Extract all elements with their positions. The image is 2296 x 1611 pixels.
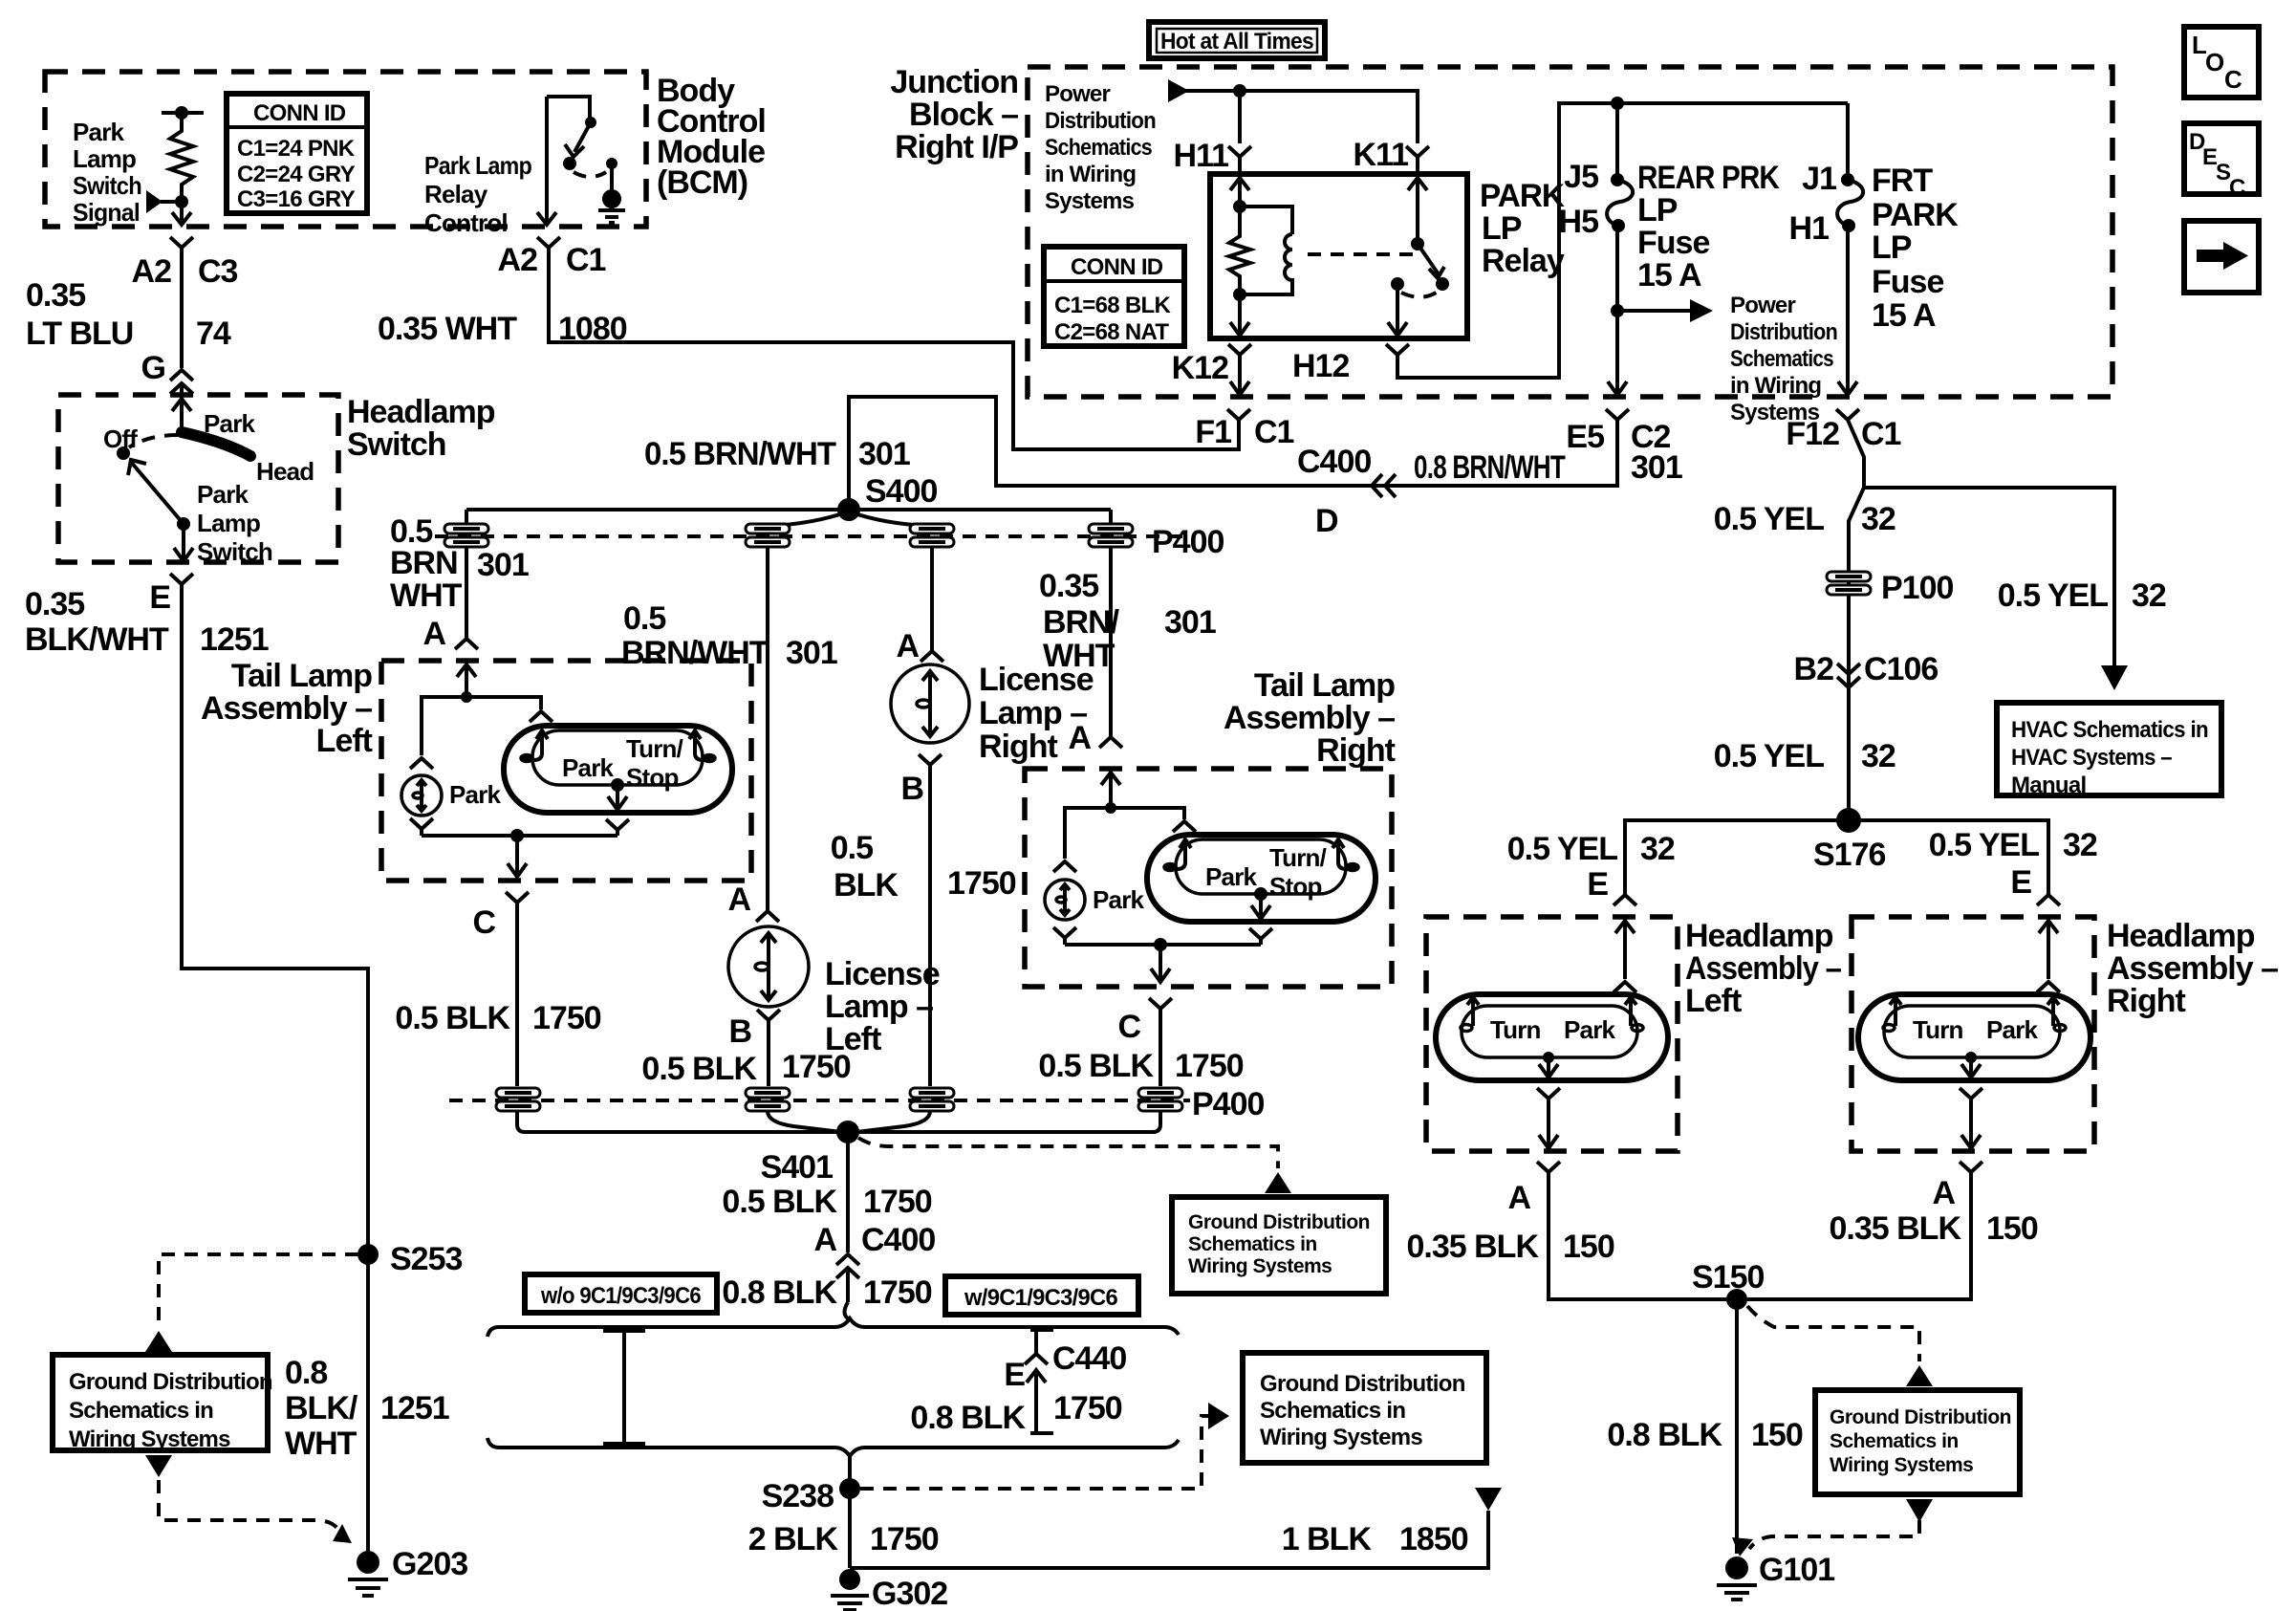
- signal arrow to left: [161, 200, 182, 204]
- svg-text:0.35: 0.35: [1039, 568, 1098, 604]
- svg-text:LT BLU: LT BLU: [26, 316, 133, 352]
- K12 chevron below relay: [1228, 344, 1251, 369]
- chevron A license left: [756, 911, 779, 922]
- svg-text:0.5: 0.5: [623, 600, 665, 637]
- wire oval exit with arrow (right): [1259, 894, 1263, 918]
- svg-text:Schematics in: Schematics in: [1830, 1430, 1959, 1452]
- grommet P400 (tail right return): [1138, 1088, 1182, 1111]
- node in tail right: [1105, 802, 1116, 814]
- svg-text:C: C: [2229, 175, 2245, 201]
- splice S401: [836, 1121, 859, 1143]
- svg-text:Lamp: Lamp: [197, 509, 260, 537]
- wire bus left end down: [465, 510, 468, 524]
- svg-text:in Wiring: in Wiring: [1730, 373, 1821, 399]
- svg-text:S401: S401: [761, 1149, 833, 1186]
- chevron turn/stop top (right): [1173, 821, 1196, 832]
- entry arrow into tail right: [1109, 769, 1113, 808]
- chevron B license right: [919, 754, 942, 776]
- wire to turn/stop branch (right): [1111, 808, 1184, 819]
- w/o path wire with end bars: [603, 1331, 645, 1444]
- K11 chevron: [1406, 146, 1429, 172]
- wire 1 BLK 1850 to G302: [850, 1511, 1488, 1568]
- junction dot: [175, 195, 188, 208]
- grommet (license left return): [746, 1088, 790, 1111]
- svg-text:32: 32: [1640, 831, 1675, 867]
- svg-text:WHT: WHT: [390, 577, 463, 614]
- svg-text:C1=24 PNK: C1=24 PNK: [237, 136, 356, 162]
- wire license-left return into S401: [768, 1111, 841, 1132]
- svg-text:Right I/P: Right I/P: [895, 129, 1018, 165]
- svg-text:Wiring Systems: Wiring Systems: [1830, 1454, 1973, 1476]
- svg-text:A2: A2: [498, 242, 538, 278]
- svg-text:0.5 YEL: 0.5 YEL: [1714, 501, 1824, 537]
- svg-text:Park: Park: [449, 780, 502, 809]
- node fuse feed REAR: [1611, 97, 1624, 110]
- relay coil branch entry arrow: [1238, 174, 1242, 206]
- svg-text:0.5 YEL: 0.5 YEL: [1507, 831, 1617, 867]
- H11 chevron: [1228, 146, 1251, 172]
- svg-text:0.35 BLK: 0.35 BLK: [1830, 1210, 1962, 1247]
- svg-text:S253: S253: [390, 1241, 462, 1277]
- connector G double chevron: [170, 370, 193, 402]
- svg-text:0.5 BLK: 0.5 BLK: [1038, 1048, 1154, 1084]
- off contact dot: [117, 446, 130, 460]
- FRT PARK LP fuse: [1837, 103, 1863, 395]
- svg-text:150: 150: [1986, 1210, 2038, 1247]
- wire 0.5 BLK 1750 (license right): [928, 776, 932, 1086]
- svg-text:0.35 BLK: 0.35 BLK: [1407, 1229, 1540, 1265]
- svg-text:0.5 YEL: 0.5 YEL: [1929, 827, 2039, 863]
- dashed branch S253 to ground distribution box: [159, 1254, 358, 1327]
- grommet connector (license left feed): [746, 524, 790, 547]
- svg-text:CONN ID: CONN ID: [1071, 254, 1163, 280]
- svg-text:Headlamp: Headlamp: [347, 394, 495, 430]
- label Power Distribution Schematics in Wiring Systems (JB left): [1045, 81, 1156, 214]
- wire to turn/stop branch: [466, 697, 541, 709]
- exit arrow from oval (right): [1969, 1057, 1973, 1077]
- dashed harness line P400 top row: [435, 534, 1190, 538]
- svg-text:C440: C440: [1052, 1340, 1126, 1377]
- grommet (license right return): [910, 1088, 954, 1111]
- box HVAC Schematics in HVAC Systems - Manual: [1997, 703, 2221, 798]
- svg-text:Wiring Systems: Wiring Systems: [1260, 1425, 1422, 1450]
- svg-text:D: D: [1315, 503, 1338, 539]
- wire tail-left return into bus: [517, 1111, 525, 1132]
- svg-text:Headlamp: Headlamp: [1685, 918, 1833, 954]
- S400 bus wire: [466, 508, 1111, 512]
- svg-text:Turn: Turn: [1913, 1015, 1963, 1044]
- splice S150: [1726, 1289, 1747, 1310]
- splice S176: [1836, 808, 1861, 833]
- svg-text:1750: 1750: [947, 865, 1016, 902]
- svg-text:15 A: 15 A: [1872, 297, 1936, 334]
- switch armature with arrow toward Off: [130, 461, 184, 524]
- svg-text:B: B: [728, 1013, 751, 1050]
- label License Lamp - Left: [825, 956, 940, 1057]
- svg-text:LP: LP: [1637, 192, 1678, 229]
- label 0.5 BRN/WHT 301 (license left): [621, 600, 837, 671]
- wire to park bulb branch (right): [1065, 808, 1111, 859]
- svg-text:Switch: Switch: [197, 537, 272, 566]
- label Junction Block - Right I/P: [890, 64, 1018, 165]
- svg-text:0.5: 0.5: [831, 830, 873, 866]
- svg-text:Stop: Stop: [1269, 872, 1322, 901]
- H12 chevron below relay: [1386, 344, 1409, 369]
- svg-text:0.5 BLK: 0.5 BLK: [641, 1051, 757, 1087]
- wire tail-right return into bus: [1153, 1111, 1160, 1132]
- svg-text:C2=68 NAT: C2=68 NAT: [1054, 319, 1169, 345]
- svg-text:0.35 WHT: 0.35 WHT: [378, 311, 517, 347]
- connector A2/C3 chevron: [170, 237, 193, 264]
- chevron park bulb bottom (right): [1053, 927, 1076, 945]
- svg-text:H12: H12: [1292, 348, 1349, 384]
- svg-text:1750: 1750: [532, 1000, 601, 1036]
- svg-text:0.8 BRN/WHT: 0.8 BRN/WHT: [1414, 449, 1566, 486]
- tail lamp right dashed box: [1025, 769, 1392, 987]
- svg-text:G: G: [141, 350, 165, 386]
- license lamp left bulb: [728, 926, 809, 1007]
- svg-text:FRT: FRT: [1872, 163, 1933, 199]
- svg-text:Headlamp: Headlamp: [2107, 918, 2255, 954]
- svg-text:Park Lamp: Park Lamp: [424, 151, 531, 180]
- wire down to box edge with arrowhead: [180, 202, 184, 224]
- svg-text:Relay: Relay: [424, 180, 488, 208]
- chevron E headlamp right: [2037, 895, 2060, 905]
- arrow out of box bottom: [145, 1455, 172, 1477]
- BCM dashed box: [45, 72, 646, 227]
- BCM relay control output wire: [545, 97, 549, 224]
- svg-text:PARK: PARK: [1872, 197, 1959, 233]
- svg-text:J5: J5: [1564, 159, 1598, 195]
- svg-text:E: E: [1004, 1357, 1025, 1393]
- arrow out of box bottom (right): [1906, 1499, 1933, 1522]
- chevron E headlamp left: [1614, 895, 1636, 905]
- svg-text:0.8 BLK: 0.8 BLK: [1607, 1417, 1722, 1453]
- svg-text:A: A: [896, 628, 919, 664]
- dashed S238 to ground distribution box: [860, 1416, 1225, 1489]
- park lamp switch output wire: [182, 524, 185, 560]
- license lamp right bulb: [891, 664, 969, 743]
- svg-text:1251: 1251: [380, 1390, 449, 1426]
- svg-text:Lamp –: Lamp –: [825, 989, 933, 1025]
- svg-text:S150: S150: [1692, 1259, 1764, 1295]
- turn filament (headlamp left): [1467, 997, 1479, 1026]
- svg-text:F1: F1: [1195, 414, 1231, 450]
- node on feed at H11: [1233, 84, 1246, 98]
- svg-text:0.5 YEL: 0.5 YEL: [1714, 738, 1824, 774]
- svg-text:Park: Park: [562, 753, 615, 782]
- svg-text:C2=24 GRY: C2=24 GRY: [237, 162, 356, 187]
- svg-text:0.8: 0.8: [285, 1355, 327, 1391]
- node C exit: [510, 829, 524, 842]
- wire C exit with arrow: [515, 836, 519, 876]
- feed arrow into JB: [1168, 79, 1189, 102]
- branch arrow to power distribution (right): [1617, 309, 1690, 313]
- svg-text:G101: G101: [1759, 1552, 1834, 1588]
- svg-text:Ground Distribution: Ground Distribution: [1188, 1211, 1370, 1233]
- grommet P100: [1827, 572, 1871, 595]
- resistor R (park lamp switch signal pull-up): [170, 113, 193, 199]
- svg-text:0.8 BLK: 0.8 BLK: [910, 1400, 1026, 1436]
- svg-text:A: A: [1068, 720, 1091, 756]
- svg-text:Relay: Relay: [1482, 243, 1565, 279]
- svg-text:S176: S176: [1813, 837, 1885, 873]
- wire bus right end down: [1109, 510, 1113, 524]
- entry arrow into tail left: [465, 661, 468, 697]
- svg-text:Distribution: Distribution: [1730, 319, 1837, 345]
- svg-text:1750: 1750: [782, 1049, 851, 1085]
- svg-text:Lamp: Lamp: [73, 144, 136, 173]
- svg-text:0.5 BLK: 0.5 BLK: [722, 1184, 837, 1220]
- arrow box: [2184, 221, 2259, 293]
- svg-text:in Wiring: in Wiring: [1045, 162, 1136, 187]
- svg-text:Wiring Systems: Wiring Systems: [69, 1426, 230, 1452]
- svg-text:2 BLK: 2 BLK: [748, 1521, 839, 1557]
- svg-text:Power: Power: [1730, 293, 1795, 318]
- turn/stop right filament (right assy): [1332, 839, 1347, 869]
- svg-text:1750: 1750: [863, 1184, 932, 1220]
- chevron B license left: [757, 1010, 780, 1033]
- wire bracket to S238: [848, 1456, 852, 1482]
- svg-text:C1: C1: [566, 242, 606, 278]
- wire S401 down: [846, 1132, 850, 1252]
- svg-text:Ground Distribution: Ground Distribution: [1830, 1406, 2011, 1428]
- node in tail left: [461, 691, 472, 703]
- chevron above oval (headlamp left): [1614, 982, 1636, 992]
- ground G101: [1717, 1557, 1757, 1600]
- node dot on resistor top: [175, 106, 188, 120]
- wire license-right return into S401: [856, 1111, 930, 1132]
- chevron C below box: [506, 892, 529, 916]
- chevron A tail right: [1099, 737, 1122, 748]
- svg-text:32: 32: [2132, 577, 2166, 614]
- wire 0.5 BLK 1750 (license left): [767, 1033, 770, 1086]
- svg-text:C: C: [1117, 1009, 1140, 1045]
- wire 0.5 BLK 1750 (tail right): [1159, 1021, 1162, 1086]
- relay coil: [1240, 207, 1292, 234]
- svg-text:C1: C1: [1254, 414, 1294, 450]
- svg-text:HVAC Systems –: HVAC Systems –: [2011, 745, 2172, 771]
- headlamp switch dashed box: [58, 395, 338, 562]
- svg-text:Right: Right: [2107, 983, 2186, 1019]
- svg-text:G203: G203: [392, 1546, 467, 1582]
- headlamp right dashed box: [1852, 917, 2094, 1151]
- label Tail Lamp Assembly - Right: [1224, 667, 1396, 769]
- box Hot at All Times: [1149, 22, 1325, 58]
- connector B2/C106 double chevron: [1837, 664, 1860, 687]
- svg-text:C3: C3: [198, 253, 238, 290]
- park bulb (tail right): [1045, 880, 1085, 920]
- node S253: [357, 1244, 379, 1265]
- svg-text:0.5 BLK: 0.5 BLK: [395, 1000, 510, 1036]
- tail right ground bus: [1065, 943, 1261, 947]
- svg-text:32: 32: [1861, 501, 1895, 537]
- label Park Lamp Relay Control: [424, 151, 531, 237]
- S176 bus right: [1849, 820, 2048, 895]
- wire 0.35 WHT 1080 from BCM C1: [549, 264, 1239, 449]
- turn/stop bulb oval (tail right): [1147, 835, 1375, 922]
- chevron above oval (headlamp right): [2037, 982, 2060, 992]
- svg-text:J1: J1: [1802, 161, 1836, 197]
- grommet connector P400 (tail right feed): [1089, 524, 1133, 547]
- svg-text:A2: A2: [132, 253, 172, 290]
- svg-text:(BCM): (BCM): [657, 164, 747, 201]
- svg-text:Assembly –: Assembly –: [1685, 950, 1841, 987]
- svg-text:P400: P400: [1192, 1086, 1264, 1122]
- label Headlamp Assembly - Right: [2107, 918, 2278, 1019]
- svg-text:K12: K12: [1172, 350, 1228, 386]
- svg-text:Schematics in: Schematics in: [1260, 1398, 1405, 1424]
- F1/C1 connector below JB: [1227, 409, 1250, 436]
- CONN ID table (JB): [1044, 247, 1184, 346]
- svg-text:Park: Park: [1093, 885, 1145, 914]
- svg-text:Park: Park: [197, 480, 249, 509]
- label PARK LP Relay: [1480, 178, 1565, 279]
- svg-text:Schematics: Schematics: [1045, 135, 1152, 161]
- exit arrow from oval: [1547, 1057, 1550, 1077]
- node oval bottom (headlamp right): [1965, 1052, 1977, 1063]
- entry arrow into headlamp left: [1623, 917, 1627, 979]
- rotary wedge Park-to-Head: [182, 432, 250, 456]
- turn/park bulb oval (headlamp left): [1436, 994, 1668, 1080]
- svg-text:S238: S238: [762, 1478, 834, 1514]
- svg-text:G302: G302: [872, 1576, 947, 1611]
- wire hook into bracket: [845, 1302, 849, 1318]
- chevron A tail left: [455, 547, 478, 649]
- wire 0.35 BLK 150 (left): [1549, 1186, 1726, 1299]
- svg-text:Assembly –: Assembly –: [1224, 700, 1395, 736]
- svg-text:Block –: Block –: [909, 97, 1018, 133]
- svg-text:Schematics in: Schematics in: [1188, 1233, 1317, 1255]
- exit arrow to box edge: [1547, 1128, 1550, 1147]
- junction block dashed box: [1028, 67, 2112, 397]
- ground G203: [348, 1551, 388, 1596]
- svg-text:1 BLK: 1 BLK: [1282, 1521, 1373, 1557]
- svg-text:BRN/: BRN/: [1043, 604, 1120, 641]
- svg-text:C106: C106: [1864, 651, 1938, 687]
- turn/stop right filament: [689, 730, 704, 760]
- upper option bracket: [487, 1318, 1179, 1337]
- HVAC branch wire: [1864, 488, 2114, 667]
- label Park Lamp Switch: [197, 480, 272, 566]
- node on oval bottom rail (right): [1254, 887, 1267, 901]
- svg-text:301: 301: [1631, 449, 1682, 486]
- svg-text:301: 301: [858, 436, 910, 472]
- svg-text:BLK/: BLK/: [285, 1390, 358, 1426]
- svg-text:BRN/WHT: BRN/WHT: [621, 635, 769, 671]
- wire 0.35 BLK 150 (right): [1747, 1186, 1971, 1299]
- svg-text:License: License: [825, 956, 940, 992]
- svg-text:C3=16 GRY: C3=16 GRY: [237, 186, 356, 212]
- svg-text:H1: H1: [1789, 210, 1830, 247]
- svg-text:C1=68 BLK: C1=68 BLK: [1054, 293, 1171, 318]
- svg-text:1750: 1750: [1053, 1390, 1122, 1426]
- splice S238: [839, 1478, 860, 1499]
- fanout to connector 2: [770, 512, 849, 526]
- svg-text:0.5 YEL: 0.5 YEL: [1998, 577, 2108, 614]
- wire 2 BLK 1750: [848, 1489, 852, 1568]
- box Ground Distribution Schematics in Wiring Systems (mid right): [1172, 1197, 1386, 1294]
- svg-text:H5: H5: [1559, 204, 1599, 240]
- H12 wire feeds fuse bus: [1397, 103, 1848, 378]
- chevron park bulb top: [410, 758, 433, 769]
- LOC box: [2184, 27, 2259, 98]
- svg-text:C: C: [2224, 65, 2242, 94]
- svg-text:74: 74: [196, 316, 231, 352]
- svg-text:K11: K11: [1354, 137, 1409, 173]
- svg-text:Right: Right: [979, 729, 1058, 765]
- fanout to connector 3: [849, 512, 929, 526]
- relay armature K11 input arrow: [1416, 174, 1419, 241]
- svg-text:0.8 BLK: 0.8 BLK: [722, 1274, 837, 1311]
- ground G302: [831, 1569, 869, 1610]
- chevron park bulb bottom: [410, 818, 433, 836]
- svg-text:A: A: [1507, 1180, 1530, 1216]
- node on oval bottom rail: [611, 778, 624, 792]
- CONN ID table (BCM): [227, 94, 367, 213]
- chevron A below box (headlamp right): [1960, 1162, 1982, 1186]
- svg-text:LP: LP: [1872, 229, 1912, 266]
- tail left ground bus: [422, 834, 617, 838]
- svg-text:Park: Park: [1986, 1015, 2039, 1044]
- svg-text:Ground Distribution: Ground Distribution: [1260, 1371, 1465, 1397]
- svg-text:E: E: [1587, 866, 1608, 903]
- wire 0.5 BLK 1750 (tail left): [515, 916, 519, 1086]
- turn/stop left filament: [533, 730, 548, 760]
- svg-text:301: 301: [786, 635, 837, 671]
- grommet (tail left return): [496, 1088, 540, 1111]
- svg-text:Assembly –: Assembly –: [2107, 950, 2278, 987]
- svg-text:C1: C1: [1861, 416, 1901, 452]
- box w/o 9C1/9C3/9C6: [525, 1274, 717, 1313]
- chevron C below box (right): [1149, 998, 1172, 1021]
- chevron A below box (headlamp left): [1537, 1162, 1560, 1186]
- svg-text:150: 150: [1751, 1417, 1803, 1453]
- chevron park bulb top (right): [1053, 861, 1076, 872]
- turn/stop left filament (right assy): [1177, 839, 1191, 869]
- svg-text:Schematics in: Schematics in: [69, 1398, 213, 1424]
- svg-text:150: 150: [1563, 1229, 1614, 1265]
- node fuse output branch: [1611, 304, 1624, 317]
- connector E/C440 column: [1030, 1329, 1053, 1354]
- svg-text:Signal: Signal: [73, 198, 140, 227]
- box Ground Distribution Schematics in Wiring Systems (mid bottom): [1243, 1353, 1486, 1463]
- svg-text:Park: Park: [1205, 862, 1258, 891]
- svg-text:32: 32: [2063, 827, 2097, 863]
- turn/park bulb oval (headlamp right): [1858, 994, 2090, 1080]
- svg-text:CONN ID: CONN ID: [253, 100, 346, 126]
- svg-text:C: C: [472, 904, 495, 941]
- wire H11 drop: [1238, 91, 1242, 143]
- wire license left feed: [766, 547, 769, 911]
- turn filament (headlamp right): [1890, 997, 1901, 1026]
- tail lamp left dashed box: [381, 661, 751, 881]
- svg-text:E: E: [149, 579, 170, 616]
- svg-text:BRN: BRN: [390, 545, 458, 581]
- wire 0.8 BLK 1750: [846, 1283, 850, 1302]
- box Ground Distribution Schematics in Wiring Systems (right): [1815, 1390, 2020, 1494]
- svg-text:E5: E5: [1566, 419, 1604, 455]
- svg-text:Fuse: Fuse: [1872, 264, 1943, 300]
- relay fixed contact: [1391, 277, 1404, 291]
- dashed S150 to ground distribution box: [1747, 1306, 1919, 1361]
- REAR fuse wire down to E5: [1615, 311, 1619, 394]
- label 0.5 BRN WHT A 301: [390, 513, 529, 652]
- label Park Lamp Switch Signal: [73, 118, 141, 227]
- dashed return to G203: [159, 1480, 340, 1532]
- wire 0.8 BRN/WHT 301 to C400 and S400: [849, 397, 1617, 502]
- svg-text:O: O: [2205, 48, 2224, 76]
